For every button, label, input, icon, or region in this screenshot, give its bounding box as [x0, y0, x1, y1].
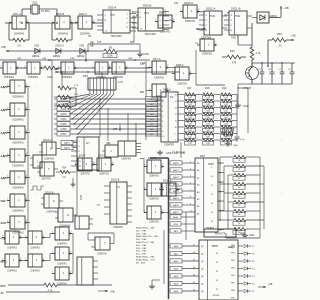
svg-text:1: 1 [149, 88, 150, 90]
svg-text:К1554ЛН1: К1554ЛН1 [12, 142, 24, 145]
led indicator HL5 [244, 274, 255, 278]
diode VD2 [32, 44, 40, 59]
gate DD3-B [109, 62, 128, 79]
svg-text:1554ЛА3: 1554ЛА3 [46, 211, 56, 214]
svg-text:2: 2 [190, 71, 191, 73]
resistor matrix R35 [219, 106, 237, 113]
svg-text:1: 1 [92, 66, 93, 68]
signal АДР0 [1, 85, 11, 89]
svg-text:1554ЛИ1: 1554ЛИ1 [202, 53, 213, 56]
svg-text:1554ТЛ2: 1554ТЛ2 [41, 179, 51, 181]
ground mid left [71, 172, 76, 187]
svg-text:В14 – РА4: В14 – РА4 [136, 244, 147, 247]
gate DD12-B [144, 206, 164, 224]
inverter DD4-E [7, 171, 28, 190]
rom control ЧТН [170, 222, 195, 226]
bus wire ОЗУ1 [54, 102, 161, 106]
bus wire АД0 [170, 244, 199, 248]
gate DD10-C [180, 1, 200, 23]
svg-text:16 МГц: 16 МГц [41, 9, 50, 13]
svg-text:ОН: ОН [140, 91, 144, 94]
bus wire ОЗУ4 [54, 117, 161, 121]
rom control ВЫБ [170, 215, 195, 219]
svg-text:1: 1 [7, 130, 8, 132]
resistor output R31 [224, 164, 264, 171]
svg-text:К1554ЛН1: К1554ЛН1 [12, 210, 24, 213]
wire pullup rail [75, 88, 77, 106]
svg-text:ВЫВ ОБЩ2 – РА0: ВЫВ ОБЩ2 – РА0 [136, 256, 155, 259]
svg-text:1554ЛИ1: 1554ЛИ1 [96, 76, 107, 79]
svg-text:ВЫВ ОБЩ1 – УА0: ВЫВ ОБЩ1 – УА0 [136, 227, 155, 230]
svg-text:DD1-A: DD1-A [13, 12, 21, 16]
svg-text:2: 2 [43, 258, 44, 260]
wire crystal branch [21, 9, 58, 24]
svg-text:2: 2 [26, 130, 27, 132]
svg-text:1: 1 [180, 9, 181, 11]
bus wire АДР7 [170, 210, 195, 214]
svg-text:РУС: РУС [1, 285, 6, 288]
svg-text:1554ЛИ1: 1554ЛИ1 [44, 159, 54, 161]
resistor R14 [56, 168, 76, 180]
bus wire ОЗУ6 [54, 127, 161, 131]
svg-text:ОВ4: ОВ4 [42, 58, 47, 60]
svg-text:АДР3: АДР3 [173, 183, 179, 186]
svg-text:1: 1 [172, 71, 173, 73]
gate DD13-B [94, 155, 114, 176]
led indicator HL4 [244, 267, 255, 271]
svg-text:1554ЛИ1: 1554ЛИ1 [113, 76, 124, 79]
resistor matrix R21 [183, 119, 201, 126]
svg-text:DD11-В: DD11-В [111, 179, 120, 182]
gate DD8-D [52, 267, 72, 286]
decoder DD2-A right pins [175, 94, 184, 141]
svg-text:1554ЛЕ1: 1554ЛЕ1 [28, 76, 38, 79]
svg-text:ЗАП: ЗАП [1, 221, 6, 225]
label net ОВ4 [42, 58, 47, 60]
resistor output R30 [220, 155, 260, 162]
ground transistor [235, 84, 252, 108]
svg-text:47К: 47К [232, 62, 237, 65]
svg-text:2: 2 [27, 20, 28, 22]
rom DD7 right pins [218, 163, 224, 232]
svg-text:В17 – РА7: В17 – РА7 [136, 229, 147, 232]
svg-text:ROM: ROM [208, 163, 214, 166]
svg-text:1: 1 [7, 153, 8, 155]
wire RP1 fanout [64, 90, 114, 134]
ground bottom left of IC [149, 280, 160, 289]
capacitor C6 [268, 63, 274, 84]
bus heavy line [150, 158, 169, 299]
resistor output R37 [224, 218, 264, 225]
decoder DD2-A [156, 88, 178, 147]
svg-text:К1554ЛН1: К1554ЛН1 [12, 96, 24, 99]
svg-text:DD11-A: DD11-A [206, 7, 216, 11]
svg-text:1: 1 [7, 84, 8, 86]
label 16 MHz [41, 9, 50, 13]
svg-text:2 К: 2 К [60, 44, 64, 48]
flip-flop DD11-B [224, 7, 252, 40]
svg-text:VD3: VD3 [55, 44, 61, 48]
svg-text:2: 2 [112, 162, 113, 164]
signal АДР1 [1, 108, 11, 112]
resistor R5 [56, 72, 79, 90]
svg-text:1: 1 [159, 187, 160, 189]
svg-text:DD2-Г: DD2-Г [79, 155, 87, 158]
svg-text:74HC393: 74HC393 [110, 34, 122, 38]
svg-text:КТ315Г: КТ315Г [243, 87, 252, 90]
gate DD2-C [58, 62, 77, 79]
gate DD6-C [2, 231, 22, 250]
svg-text:R18: R18 [205, 87, 210, 90]
wire diode rail [8, 50, 104, 52]
bus wire АД3 [170, 266, 199, 270]
gate DD2-B [24, 62, 43, 79]
bus wire АД2 [170, 259, 199, 263]
gate DD2-A [0, 62, 19, 79]
inverter DD1-C [75, 12, 95, 36]
svg-text:VD4: VD4 [79, 44, 85, 48]
svg-text:2 К: 2 К [17, 44, 21, 48]
svg-text:1554ЛИ1: 1554ЛИ1 [154, 101, 164, 103]
svg-text:1: 1 [52, 251, 53, 253]
bus wire АДР0 [170, 161, 195, 165]
power arrow +5V bottom mid [98, 290, 115, 294]
svg-text:АДР0: АДР0 [173, 162, 179, 165]
wire bus drop a [99, 98, 100, 137]
svg-text:1554ЛИ1: 1554ЛИ1 [149, 199, 159, 201]
label bus mid [172, 152, 186, 155]
gate DD13-A [75, 155, 95, 176]
svg-text:1554ЛИ1: 1554ЛИ1 [149, 222, 159, 224]
svg-text:РЕГИСТР: РЕГИСТР [215, 234, 226, 236]
resistor output R33 [220, 182, 264, 189]
bus wire ОЗУ3 [54, 112, 161, 116]
wire DD10C to DD11A [180, 12, 229, 14]
svg-text:1: 1 [52, 271, 53, 273]
bus wire АДР1 [170, 168, 195, 172]
svg-text:2: 2 [26, 175, 27, 177]
register box [204, 229, 236, 237]
capacitor C8 [288, 63, 294, 84]
gate DD8-C [52, 247, 72, 266]
pulse waveform symbol [30, 186, 44, 190]
svg-text:2: 2 [26, 198, 27, 200]
flip-flop DD11-A [199, 7, 227, 40]
svg-text:+5В: +5В [112, 127, 117, 131]
gate DD9-F [91, 237, 114, 256]
resistor R28 [250, 45, 261, 68]
vertical label ROM [79, 194, 83, 200]
bus wire АДР4 [170, 189, 195, 193]
power arrow +5V top right [269, 6, 289, 18]
gate DD3-A [92, 62, 111, 79]
signal ОЗУ [1, 199, 11, 203]
inverter DD4-A [7, 80, 28, 99]
capacitor C3 [87, 34, 140, 52]
svg-text:1554ЛН1: 1554ЛН1 [58, 33, 69, 36]
svg-text:1554ЛН1: 1554ЛН1 [160, 31, 171, 34]
resistor matrix R28 [201, 113, 219, 120]
resistor matrix R23 [183, 132, 201, 139]
resistor matrix R26 [201, 100, 219, 107]
svg-text:ОВ6: ОВ6 [70, 58, 75, 60]
svg-text:100К: 100К [47, 76, 53, 79]
resistor R36 [268, 33, 286, 48]
svg-text:DD5-B: DD5-B [143, 4, 152, 8]
resistor matrix R25 [201, 93, 219, 100]
svg-text:1: 1 [144, 210, 145, 212]
resistor matrix R18 [183, 100, 201, 107]
svg-text:СТ2: СТ2 [144, 11, 149, 15]
svg-text:1554ЛА3: 1554ЛА3 [30, 247, 40, 250]
gate DD8-B [52, 227, 72, 246]
bus wire АДР3 [170, 182, 195, 186]
bus wire АДР6 [170, 203, 195, 207]
gate DD9-E [149, 84, 169, 103]
wire matrix right rail [183, 95, 237, 134]
svg-text:2: 2 [41, 65, 42, 67]
wire bottom-left rail 2 [1, 292, 61, 295]
svg-text:ТМ2: ТМ2 [235, 15, 241, 18]
svg-text:1554ЛН1: 1554ЛН1 [99, 174, 109, 176]
bus wire ОЗУ5 [54, 122, 161, 126]
ground register [240, 233, 255, 238]
wire counters link [130, 15, 138, 42]
resistor R1 [9, 23, 29, 48]
bus wire ОЗУ7 [54, 132, 161, 136]
svg-text:ОЗУ4: ОЗУ4 [61, 119, 68, 121]
svg-text:ОЗУ: ОЗУ [79, 194, 83, 200]
svg-text:1: 1 [149, 65, 150, 67]
resistor matrix R30 [201, 126, 219, 133]
resistor matrix R27 [201, 106, 219, 113]
svg-text:ZQ1: ZQ1 [32, 1, 38, 5]
gate DD6-D [2, 254, 22, 273]
wire top right vertical [238, 23, 269, 67]
svg-text:В9 – А15: В9 – А15 [136, 261, 146, 264]
svg-text:1: 1 [52, 231, 53, 233]
resistor output R34 [224, 191, 260, 198]
gate DD12-A [39, 139, 60, 161]
wire bottom-left rail 1 [1, 285, 45, 288]
svg-text:R26: R26 [230, 50, 235, 53]
svg-text:2: 2 [70, 251, 71, 253]
label R17 [187, 87, 192, 90]
label R19 [222, 87, 227, 90]
diode box VD8 [252, 12, 278, 23]
wire top mid links [146, 50, 225, 97]
signal ВЫБ bottom [1, 260, 7, 264]
svg-text:+5В: +5В [284, 7, 289, 10]
svg-text:1: 1 [25, 258, 26, 260]
bus wire ОЗУ0 [54, 97, 161, 101]
svg-text:GND: GND [233, 145, 238, 147]
svg-text:1554ЛЕ1: 1554ЛЕ1 [62, 76, 72, 79]
gate DD9-D [25, 254, 45, 273]
resistor matrix R38 [219, 126, 237, 133]
svg-text:В13 – РА3: В13 – РА3 [136, 247, 147, 250]
svg-text:2: 2 [43, 235, 44, 237]
diode VD4 [77, 44, 85, 59]
label net ОВ6 [70, 58, 75, 60]
svg-text:&: & [53, 199, 55, 203]
svg-text:ТМ2: ТМ2 [231, 37, 236, 40]
svg-text:2: 2 [17, 65, 18, 67]
svg-text:R36: R36 [277, 33, 282, 36]
svg-text:DD11-B: DD11-B [231, 7, 241, 11]
power arrow +5V right [286, 35, 296, 42]
svg-text:ЧТН: ЧТН [1, 237, 6, 241]
svg-text:2: 2 [26, 84, 27, 86]
power +5V selector [96, 205, 104, 208]
svg-text:ЗАП: ЗАП [173, 230, 178, 233]
capacitor C14 [235, 133, 245, 142]
svg-text:КД522: КД522 [32, 55, 40, 58]
resistor R6 [54, 94, 79, 99]
svg-text:В7: В7 [219, 220, 221, 222]
svg-text:+5В: +5В [1, 45, 6, 49]
svg-text:ОЗУ6: ОЗУ6 [61, 129, 68, 131]
svg-text:GND: GND [249, 234, 255, 237]
svg-text:&: & [67, 213, 69, 217]
wire DD9-F loop [88, 233, 114, 244]
wire DD5B to DD8A [155, 20, 176, 22]
inverter DD4-D [7, 149, 28, 168]
gate DD9-C [25, 231, 45, 250]
wire +5V top rail [54, 67, 180, 73]
resistor matrix R40 [219, 139, 237, 146]
resistor matrix R37 [219, 119, 237, 126]
port DD14 right pins [238, 246, 243, 291]
resistor output R38 [228, 227, 260, 234]
resistor matrix R22 [183, 126, 201, 133]
svg-text:1: 1 [94, 162, 95, 164]
signal СБР [140, 63, 145, 66]
svg-text:1554ЛА3: 1554ЛА3 [57, 243, 67, 246]
svg-text:1554ЛА3: 1554ЛА3 [57, 263, 67, 266]
svg-text:2: 2 [167, 88, 168, 90]
svg-text:DD10-C: DD10-C [184, 1, 193, 5]
svg-text:АДР5: АДР5 [64, 142, 70, 145]
svg-text:К1554ЛН1: К1554ЛН1 [12, 187, 24, 190]
svg-text:АДР6: АДР6 [64, 147, 70, 150]
counter DD5-B [132, 4, 169, 37]
gate DD10-G [159, 180, 179, 197]
diode VD3 [53, 44, 61, 59]
gate DD5-D [37, 162, 58, 181]
svg-text:1: 1 [25, 235, 26, 237]
gate DD10-F [144, 183, 164, 201]
gate DD1-D [102, 143, 118, 157]
svg-text:+5В: +5В [268, 283, 273, 286]
svg-text:АДР1: АДР1 [173, 169, 179, 172]
svg-text:2: 2 [167, 65, 168, 67]
svg-text:В11 – РА1: В11 – РА1 [136, 253, 147, 256]
label bottom right block [228, 245, 235, 249]
svg-text:2: 2 [70, 271, 71, 273]
svg-text:АДР2: АДР2 [173, 176, 179, 179]
resistor matrix R36 [219, 113, 237, 120]
svg-text:ВЫБ: ВЫБ [1, 260, 7, 264]
led indicator HL3 [244, 259, 255, 263]
svg-text:2: 2 [26, 107, 27, 109]
svg-text:1554ЛН1: 1554ЛН1 [14, 33, 25, 36]
wire ladder right rails [260, 157, 264, 238]
svg-text:DD7: DD7 [200, 154, 206, 158]
svg-text:2: 2 [162, 210, 163, 212]
svg-text:2: 2 [20, 235, 21, 237]
gate DD8-B top [172, 64, 192, 86]
led indicator HL1 [244, 244, 255, 248]
capacitor C7 [278, 63, 284, 84]
svg-text:ВВ55: ВВ55 [212, 245, 219, 248]
svg-text:2: 2 [26, 153, 27, 155]
resistor matrix R34 [219, 100, 237, 107]
signal ЧТН bottom [1, 237, 6, 241]
resistor R45 [44, 283, 112, 292]
bus wire АДР2 [170, 175, 195, 179]
svg-text:ОЗУ3: ОЗУ3 [61, 114, 68, 116]
resistor R3 [103, 47, 117, 58]
svg-text:GND: GND [166, 152, 172, 155]
resistor output R35 [228, 200, 264, 207]
svg-text:В8: В8 [219, 229, 221, 231]
svg-text:КД522: КД522 [77, 55, 85, 58]
gate DD9-A [41, 192, 63, 214]
svg-text:АДР4: АДР4 [173, 190, 179, 193]
svg-text:1554ЛН1: 1554ЛН1 [185, 20, 196, 23]
wire matrix frame bottom [226, 233, 260, 238]
svg-text:1554ЛЕ1: 1554ЛЕ1 [4, 76, 14, 79]
svg-text:+5В: +5В [291, 35, 296, 38]
crystal ZQ1 [31, 1, 40, 15]
svg-text:4,7К: 4,7К [118, 81, 123, 84]
svg-text:АДР7: АДР7 [173, 211, 179, 214]
resistor matrix R24 [183, 139, 201, 146]
ic DD13 latch [75, 216, 93, 229]
svg-text:КР580: КР580 [213, 295, 220, 297]
wire bus drop b [107, 108, 108, 141]
power arrow +5V mid [196, 27, 206, 31]
svg-text:ОЗУ7: ОЗУ7 [61, 134, 68, 136]
label net ОВ2 [17, 58, 22, 60]
led indicator HL7 [244, 289, 255, 293]
gate DD10-D [195, 39, 217, 56]
svg-text:2: 2 [20, 258, 21, 260]
svg-text:В15 – РА5: В15 – РА5 [136, 238, 147, 241]
wire bottom-left links [19, 234, 73, 274]
gate DD9-B [55, 208, 77, 228]
svg-text:АП: АП [86, 142, 90, 145]
ground ROM left [157, 150, 172, 155]
port DD14 [199, 240, 238, 300]
ic DD3 buffer [71, 137, 99, 170]
svg-text:1: 1 [52, 20, 53, 22]
signal АДР2 [1, 131, 11, 135]
svg-text:1554ТЛ2: 1554ТЛ2 [80, 174, 90, 176]
svg-text:1554ЛН1: 1554ЛН1 [97, 254, 107, 256]
svg-text:КД522: КД522 [53, 55, 61, 58]
svg-text:1554ЛА3: 1554ЛА3 [7, 247, 17, 250]
bus label АДР5 [61, 141, 77, 145]
svg-text:К1554ЛН1: К1554ЛН1 [12, 119, 24, 122]
svg-text:2: 2 [26, 220, 27, 222]
label 24С [174, 2, 179, 5]
resistor output R36 [220, 209, 260, 216]
svg-text:1554ПР5: 1554ПР5 [164, 144, 175, 147]
bus label АДР6 [61, 146, 77, 150]
svg-text:ОВ8: ОВ8 [128, 58, 133, 60]
